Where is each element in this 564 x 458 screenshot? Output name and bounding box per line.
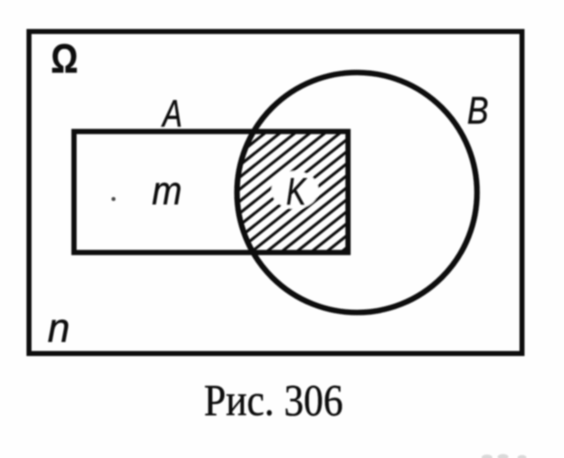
white halo around label K xyxy=(272,171,319,209)
hatched region K (A intersect B) xyxy=(215,5,380,365)
label Omega xyxy=(51,36,78,82)
label K xyxy=(286,171,307,213)
svg-text:m: m xyxy=(152,170,182,214)
svg-text:n: n xyxy=(48,304,70,351)
label B xyxy=(467,90,488,132)
svg-text:Ω: Ω xyxy=(51,36,78,82)
circle B xyxy=(237,73,477,313)
rectangle A xyxy=(74,132,348,253)
svg-text:A: A xyxy=(161,93,182,135)
label A xyxy=(161,93,182,135)
stray dot (scan speck) xyxy=(112,197,116,201)
outer rectangle Omega (universe) xyxy=(29,32,522,354)
faint page smudge bottom right xyxy=(482,454,527,458)
label m xyxy=(152,170,182,214)
svg-text:K: K xyxy=(286,171,307,213)
label n xyxy=(48,304,70,351)
svg-text:Рис. 306: Рис. 306 xyxy=(204,375,343,425)
svg-text:B: B xyxy=(467,90,488,132)
